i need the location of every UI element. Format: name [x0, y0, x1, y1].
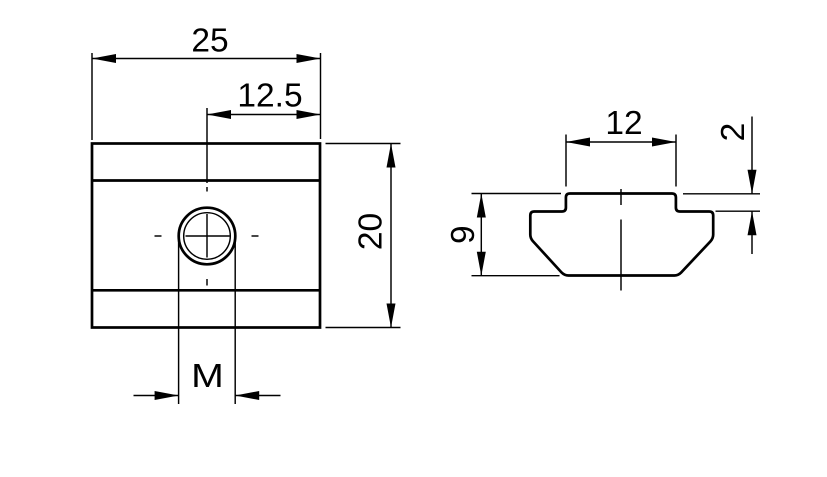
thread extension line right: [234, 238, 236, 404]
dimension 12 extension line left: [565, 135, 567, 187]
dimension 2 line upper segment: [751, 117, 753, 194]
front view upper step edge: [92, 179, 320, 182]
dimension M line left segment: [134, 395, 179, 397]
dimension 12.5 arrow right: [297, 110, 321, 119]
dimension 2 arrow upper: [748, 170, 757, 194]
dimension 2 line lower segment: [751, 211, 753, 254]
dimension 12 extension line right: [675, 135, 677, 187]
svg-text:2: 2: [715, 123, 752, 142]
dimension 20 arrow bottom: [387, 304, 396, 328]
side view centerline upper dash: [620, 189, 622, 205]
dimension 9 extension line bottom: [472, 275, 560, 277]
dimension 25 extension line left: [91, 53, 93, 140]
dimension 12 text: [605, 105, 642, 142]
dimension 2 text: [715, 123, 752, 142]
svg-text:20: 20: [353, 213, 390, 250]
dimension 25 arrow left: [92, 54, 116, 63]
dimension 12 arrow left: [566, 138, 590, 147]
thread inner circle: [184, 213, 231, 260]
svg-text:9: 9: [445, 225, 482, 244]
dimension 9 line: [480, 194, 482, 276]
dimension 12 line: [566, 141, 676, 143]
dimension 12.5 arrow left: [207, 110, 231, 119]
dimension 25 line: [92, 58, 321, 60]
dimension 20 text: [353, 213, 390, 250]
svg-text:M: M: [191, 357, 224, 395]
centerline dash below hole: [206, 279, 208, 286]
dimension 20 arrow top: [387, 144, 396, 168]
centerline dash above hole: [206, 187, 208, 192]
side view centerline lower run: [620, 220, 622, 291]
vertical centerline upper run: [206, 108, 208, 183]
dimension 9 text: [445, 225, 482, 244]
dimension 9 arrow top: [477, 194, 486, 218]
dimension 12 arrow right: [652, 138, 676, 147]
dimension 2 extension line bottom: [716, 210, 761, 212]
front view lower step edge: [92, 289, 320, 292]
front view body outline: [92, 144, 320, 328]
hole crosshair vertical: [206, 214, 208, 258]
dimension M arrow right: [235, 391, 259, 400]
hole crosshair horizontal: [186, 235, 230, 237]
centerline dash right: [252, 235, 259, 237]
thread extension line left: [178, 238, 180, 404]
centerline dash left: [155, 235, 162, 237]
dimension M arrow left: [155, 391, 179, 400]
dimension M line right segment: [235, 395, 280, 397]
dimension 25 text: [191, 23, 228, 60]
dimension M text: [191, 357, 224, 395]
dimension 2 extension line top: [683, 193, 760, 195]
dimension 25 arrow right: [297, 54, 321, 63]
dimension 9 extension line top: [472, 193, 562, 195]
dimension 9 arrow bottom: [477, 252, 486, 276]
thread outer circle: [179, 208, 236, 265]
dimension 20 line: [390, 144, 392, 328]
dimension 12.5 text: [237, 78, 302, 115]
svg-text:12: 12: [605, 105, 642, 142]
side view profile outline: [530, 194, 713, 276]
dimension 12.5 line: [207, 114, 321, 116]
dimension 20 extension line top: [326, 143, 401, 145]
svg-text:25: 25: [191, 23, 228, 60]
dimension 2 arrow lower: [748, 211, 757, 235]
dimension 20 extension line bottom: [326, 327, 401, 329]
dimension 25 extension line right: [320, 53, 322, 139]
svg-text:12.5: 12.5: [237, 78, 302, 115]
